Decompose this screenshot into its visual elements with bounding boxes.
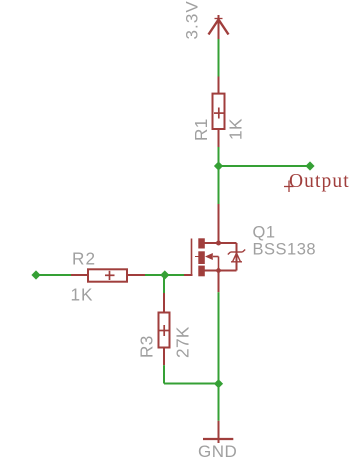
svg-text:R1: R1 — [191, 118, 211, 141]
svg-text:1K: 1K — [71, 285, 94, 305]
svg-text:3.3V: 3.3V — [183, 0, 202, 39]
svg-text:Q1: Q1 — [253, 224, 276, 242]
svg-text:BSS138: BSS138 — [253, 241, 317, 259]
svg-text:27K: 27K — [173, 326, 193, 358]
svg-text:R2: R2 — [72, 249, 96, 269]
svg-text:1K: 1K — [226, 118, 246, 140]
svg-text:GND: GND — [198, 442, 237, 461]
svg-text:Output: Output — [289, 171, 350, 192]
svg-text:R3: R3 — [137, 335, 157, 358]
